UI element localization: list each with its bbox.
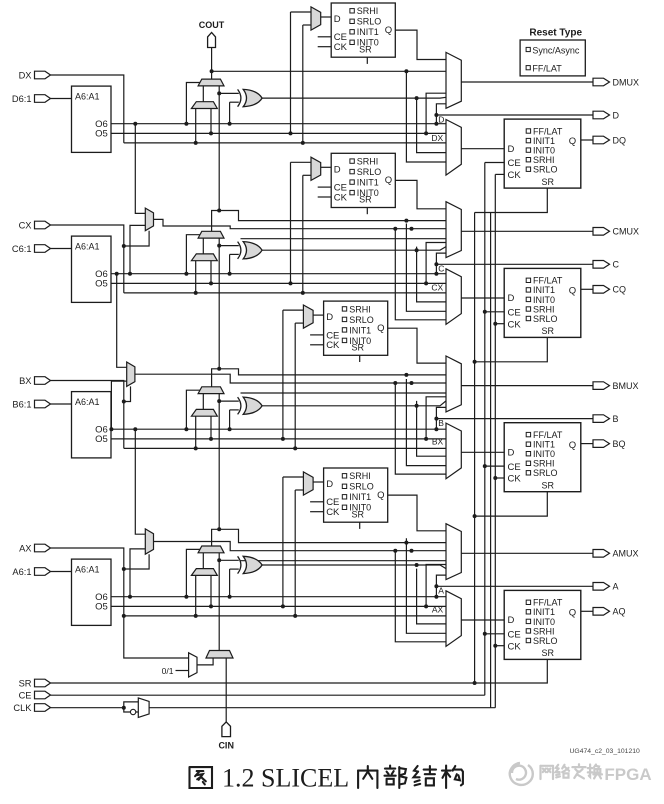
svg-text:SR: SR — [542, 177, 555, 187]
svg-text:O5: O5 — [95, 279, 108, 290]
svg-text:CQ: CQ — [613, 285, 627, 295]
svg-text:SRLO: SRLO — [349, 482, 374, 492]
svg-text:INIT1: INIT1 — [349, 325, 371, 335]
svg-text:B: B — [613, 414, 619, 424]
svg-text:0/1: 0/1 — [162, 666, 174, 676]
svg-text:C: C — [613, 260, 620, 270]
svg-text:SR: SR — [542, 326, 555, 336]
svg-text:Q: Q — [569, 440, 576, 451]
svg-text:Q: Q — [569, 286, 576, 297]
svg-text:FF/LAT: FF/LAT — [533, 598, 563, 608]
svg-text:FF/LAT: FF/LAT — [532, 64, 562, 74]
svg-text:Q: Q — [385, 175, 392, 186]
svg-text:CX: CX — [19, 220, 32, 230]
svg-text:SRHI: SRHI — [533, 304, 555, 314]
svg-text:AX: AX — [19, 543, 31, 553]
svg-text:D: D — [508, 447, 515, 458]
svg-text:CK: CK — [508, 170, 522, 181]
svg-text:O5: O5 — [95, 434, 108, 445]
svg-text:D: D — [508, 144, 515, 155]
svg-text:INIT1: INIT1 — [533, 285, 555, 295]
svg-text:A: A — [613, 582, 619, 592]
svg-text:AQ: AQ — [613, 607, 626, 617]
svg-text:A6:A1: A6:A1 — [75, 564, 100, 574]
svg-text:O5: O5 — [95, 602, 108, 613]
svg-text:AMUX: AMUX — [613, 549, 639, 559]
svg-text:SR: SR — [542, 481, 555, 491]
svg-text:INIT1: INIT1 — [357, 27, 379, 37]
svg-text:SR: SR — [352, 343, 365, 353]
svg-text:CE: CE — [508, 308, 521, 319]
svg-text:D: D — [508, 293, 515, 304]
svg-text:FF/LAT: FF/LAT — [533, 276, 563, 286]
svg-text:CE: CE — [508, 462, 521, 473]
svg-text:SRHI: SRHI — [357, 6, 379, 16]
svg-text:D: D — [326, 312, 333, 323]
svg-text:SRHI: SRHI — [533, 459, 555, 469]
svg-text:CK: CK — [334, 42, 348, 53]
svg-text:SRHI: SRHI — [349, 471, 371, 481]
svg-text:CK: CK — [508, 319, 522, 330]
svg-text:INIT1: INIT1 — [533, 607, 555, 617]
svg-text:DX: DX — [431, 133, 443, 143]
svg-text:CIN: CIN — [218, 741, 234, 751]
svg-text:CX: CX — [431, 282, 443, 292]
svg-text:CLK: CLK — [13, 703, 32, 713]
svg-text:A6:A1: A6:A1 — [75, 397, 100, 407]
svg-text:Q: Q — [569, 608, 576, 619]
svg-text:CE: CE — [508, 630, 521, 641]
svg-text:SRLO: SRLO — [357, 17, 382, 27]
svg-text:SRHI: SRHI — [533, 155, 555, 165]
svg-text:CE: CE — [508, 158, 521, 169]
svg-text:SRLO: SRLO — [357, 167, 382, 177]
svg-text:FPGA: FPGA — [604, 765, 651, 784]
svg-text:INIT0: INIT0 — [533, 449, 555, 459]
svg-text:SR: SR — [359, 44, 372, 54]
svg-text:INIT0: INIT0 — [533, 146, 555, 156]
svg-text:BX: BX — [19, 376, 31, 386]
svg-text:Sync/Async: Sync/Async — [532, 46, 580, 56]
svg-text:DQ: DQ — [613, 135, 627, 145]
svg-text:SRLO: SRLO — [349, 315, 374, 325]
svg-text:DX: DX — [19, 70, 32, 80]
svg-text:INIT1: INIT1 — [533, 440, 555, 450]
svg-text:BX: BX — [432, 437, 444, 447]
svg-text:FF/LAT: FF/LAT — [533, 126, 563, 136]
svg-text:A6:1: A6:1 — [12, 567, 31, 577]
svg-text:A6:A1: A6:A1 — [75, 91, 100, 101]
svg-text:INIT1: INIT1 — [357, 178, 379, 188]
svg-text:B6:1: B6:1 — [12, 399, 31, 409]
svg-text:INIT0: INIT0 — [533, 617, 555, 627]
svg-text:D: D — [334, 164, 341, 175]
svg-text:DMUX: DMUX — [613, 77, 640, 87]
svg-text:A: A — [438, 586, 444, 596]
svg-text:CMUX: CMUX — [613, 227, 640, 237]
svg-text:FF/LAT: FF/LAT — [533, 430, 563, 440]
svg-text:1.2 SLICEL: 1.2 SLICEL — [222, 764, 349, 793]
svg-text:D: D — [508, 615, 515, 626]
svg-text:Q: Q — [377, 490, 384, 501]
svg-text:Reset Type: Reset Type — [529, 27, 582, 38]
svg-text:B: B — [438, 418, 444, 428]
svg-text:A6:A1: A6:A1 — [75, 241, 100, 251]
svg-text:INIT0: INIT0 — [533, 295, 555, 305]
svg-text:SR: SR — [19, 678, 32, 688]
svg-text:CE: CE — [19, 690, 32, 700]
svg-text:CK: CK — [326, 507, 340, 518]
svg-text:SRLO: SRLO — [533, 314, 558, 324]
svg-text:D: D — [334, 14, 341, 25]
svg-text:SRHI: SRHI — [357, 157, 379, 167]
svg-text:SR: SR — [542, 648, 555, 658]
svg-text:CK: CK — [326, 340, 340, 351]
svg-text:CK: CK — [334, 192, 348, 203]
svg-text:SR: SR — [359, 195, 372, 205]
svg-text:COUT: COUT — [199, 20, 225, 30]
svg-text:AX: AX — [432, 604, 444, 614]
svg-text:INIT1: INIT1 — [349, 492, 371, 502]
svg-text:SRLO: SRLO — [533, 468, 558, 478]
svg-text:CK: CK — [508, 474, 522, 485]
svg-text:SRLO: SRLO — [533, 636, 558, 646]
svg-text:SR: SR — [352, 509, 365, 519]
svg-text:Q: Q — [385, 25, 392, 36]
svg-text:INIT1: INIT1 — [533, 136, 555, 146]
svg-text:Q: Q — [377, 323, 384, 334]
svg-text:C6:1: C6:1 — [12, 244, 32, 254]
svg-text:UG474_c2_03_101210: UG474_c2_03_101210 — [570, 748, 641, 755]
svg-text:SRHI: SRHI — [349, 304, 371, 314]
svg-text:SRHI: SRHI — [533, 626, 555, 636]
svg-text:D6:1: D6:1 — [12, 94, 32, 104]
svg-text:D: D — [438, 114, 444, 124]
svg-text:BQ: BQ — [613, 439, 626, 449]
svg-text:O5: O5 — [95, 129, 108, 140]
svg-text:D: D — [613, 110, 620, 120]
svg-text:SRLO: SRLO — [533, 165, 558, 175]
svg-text:Q: Q — [569, 136, 576, 147]
svg-text:BMUX: BMUX — [613, 381, 639, 391]
svg-text:D: D — [326, 479, 333, 490]
svg-text:CK: CK — [508, 641, 522, 652]
svg-text:C: C — [438, 264, 444, 274]
